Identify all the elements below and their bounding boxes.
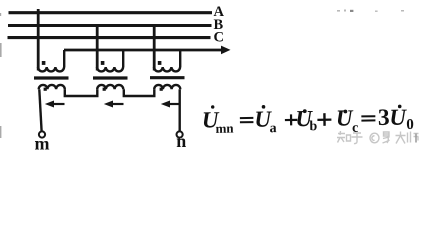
wire primary common neutral with arrow: [64, 49, 222, 52]
char zhi: [337, 131, 351, 143]
char hu: [352, 133, 363, 144]
bus line B: [8, 24, 212, 27]
wire secondary T3 right to terminal n: [178, 89, 180, 131]
svg-text:m: m: [35, 134, 50, 154]
core T3: [150, 76, 185, 79]
terminal m circle: [39, 131, 45, 137]
arrow Ub direction under T2 secondary: [104, 101, 124, 108]
bus line C: [8, 36, 211, 39]
polarity dot T3 primary: [158, 61, 162, 65]
svg-text:3: 3: [378, 105, 390, 131]
wire series link T1-T2: [65, 89, 98, 96]
terminal n circle: [177, 131, 183, 137]
char yi: [383, 132, 390, 143]
scan specks top right: [337, 10, 404, 13]
svg-text:b: b: [309, 119, 317, 134]
wire dropper V3 to T3 primary: [153, 24, 156, 71]
core T2: [93, 76, 128, 79]
svg-text:U: U: [389, 105, 407, 130]
equals sign 1: [240, 117, 254, 119]
winding T3 secondary: [154, 85, 180, 89]
char da: [396, 132, 406, 144]
wire dropper V1 from A to T1 primary: [37, 9, 40, 71]
svg-text:C: C: [214, 29, 224, 45]
winding T1 primary: [38, 67, 64, 71]
polarity dot T3 secondary: [160, 88, 163, 91]
wire T1 primary right riser: [63, 50, 65, 67]
wire T3 primary right riser: [179, 50, 181, 67]
polarity dot T1 secondary: [44, 88, 47, 91]
formula Umn = Ua + Ub + Uc = 3U0: [202, 102, 414, 138]
core T1: [34, 76, 69, 79]
wire series link T2-T3: [124, 89, 155, 96]
scan edge artifacts left: [0, 13, 2, 138]
svg-text:0: 0: [406, 117, 414, 133]
watermark 知乎@易大师 (approximated strokes): [337, 131, 419, 144]
char at: [370, 133, 379, 143]
winding T3 primary: [154, 67, 180, 71]
polarity dot T1 primary: [42, 61, 46, 65]
wire T2 primary right riser: [122, 50, 124, 67]
polarity dot T2 secondary: [103, 88, 106, 91]
winding T2 secondary: [97, 85, 123, 89]
dots above U letters: [211, 105, 214, 108]
winding T2 primary: [97, 67, 123, 71]
svg-text:mn: mn: [215, 121, 234, 136]
arrowhead of primary neutral: [221, 46, 231, 55]
arrow Uc direction under T3 secondary: [161, 101, 181, 108]
polarity dot T2 primary: [101, 61, 105, 65]
wire secondary T1 left to terminal m: [39, 89, 41, 131]
svg-text:n: n: [176, 131, 186, 151]
svg-text:a: a: [269, 121, 276, 136]
wire dropper V2 from B to T2 primary: [96, 25, 99, 71]
plus sign 2: [317, 119, 331, 121]
equals sign 2: [361, 115, 375, 117]
char shi: [408, 132, 419, 143]
plus sign 1: [285, 119, 297, 121]
arrow Ua direction under T1 secondary: [45, 101, 65, 108]
bus line A: [9, 11, 213, 14]
winding T1 secondary: [39, 85, 65, 89]
